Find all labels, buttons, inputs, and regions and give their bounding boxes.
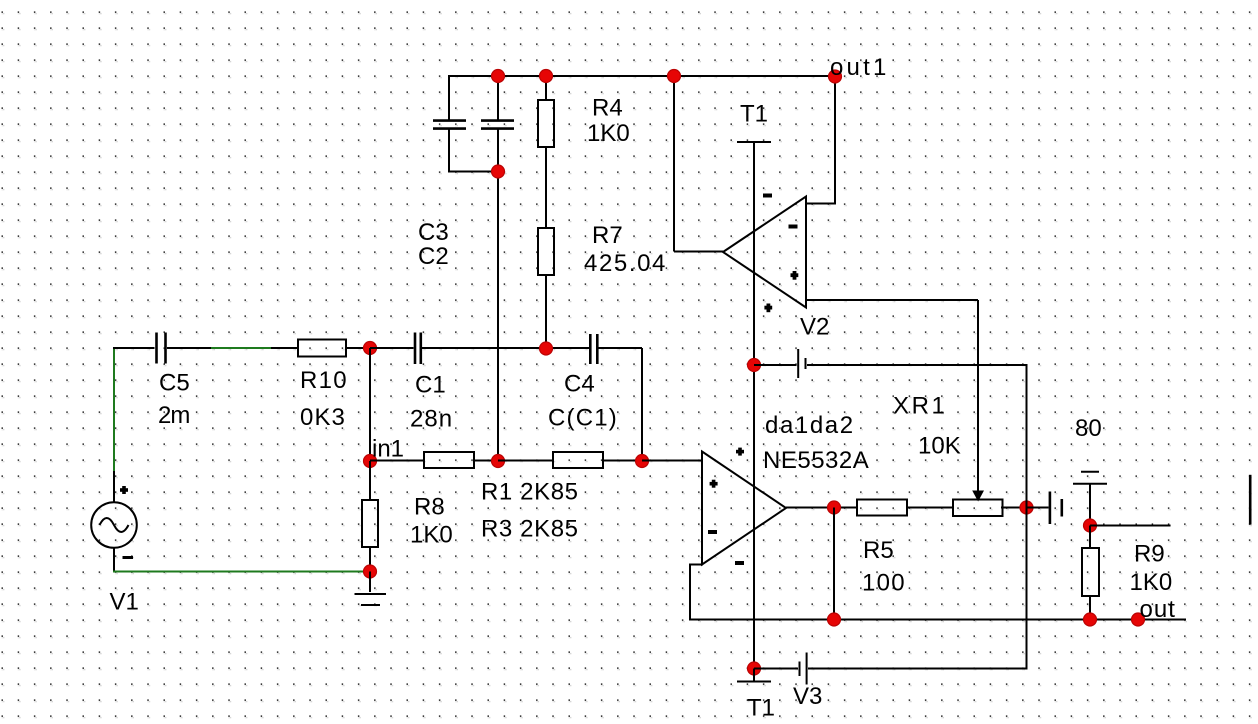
wire green to R10 [271,347,298,349]
wire C5 to green segment [167,347,212,349]
wire A2 feedback drop [689,564,691,621]
svg-text:80: 80 [1075,415,1102,442]
capacitor C5 [157,333,190,430]
wire R5 to XR1 [907,507,952,509]
wire C4 to corner [598,347,642,349]
junction R7-C1C4 [540,342,553,355]
junction 80-R9 [1084,519,1097,532]
junction C2-C3 [492,165,505,178]
wire A2 output to rail [833,508,835,620]
wire C1 to C4 [422,347,589,349]
svg-text:R7: R7 [592,222,623,249]
jumper T1 top [737,101,771,143]
wire A2 feedback jog [690,564,703,566]
wire A1 noninverting to XR1 arrow horizontal [806,299,978,301]
resistor R3 [481,452,603,543]
junction R8-ground [364,565,377,578]
component clipped at right edge [1249,475,1252,525]
resistor R1 [424,452,579,506]
junction C2 top [492,70,505,83]
wire R9 top stub [1089,526,1091,549]
capacitor C3 [418,121,466,246]
capacitor unlabeled [1050,492,1062,525]
ground [355,594,387,605]
battery 80 [1073,415,1107,484]
wire XR1 arrow vertical [977,300,979,492]
wire R4 to R7 [545,147,547,228]
junction R9 rail [1084,613,1097,626]
wire op-amp A1 output horizontal [674,251,723,253]
wire R10 to node [346,347,371,349]
wire T1 bottom stub [753,669,755,682]
wire C3 to C2 junction [448,171,498,173]
svg-text:100: 100 [862,570,906,597]
wire V3 left [754,668,798,670]
svg-text:10K: 10K [918,433,961,460]
svg-text:da1da2: da1da2 [765,412,855,439]
potentiometer XR1 [893,393,1003,517]
wire XR1 to junction [1001,507,1027,509]
wire R9 bottom stub [1089,596,1091,620]
resistor R10 [298,340,348,432]
svg-text:425.04: 425.04 [584,250,667,277]
wire R3 to junction [603,460,642,462]
wire R7 bottom stub [545,275,547,348]
wire bottom rail [689,619,1186,621]
junction V2 left [748,359,761,372]
jumper T1 bottom [737,682,775,722]
node out [1132,596,1176,626]
wire V2 left [754,364,797,366]
svg-text:C2: C2 [418,243,449,270]
svg-text:2m: 2m [158,402,189,429]
wire C3 top drop [448,75,450,121]
wire V2 supply vertical [1026,365,1028,669]
junction A1 output top [668,70,681,83]
op-amp A2 NE5532A da1da2 [702,412,869,565]
wire out1 drop [834,76,836,205]
wire junction to R3 [498,460,553,462]
wire ground stub [369,572,371,593]
wire in1 vertical [369,348,371,461]
wire C3 bottom stub [448,129,450,173]
wire V1 top vertical green [113,347,115,471]
wire green segment [211,347,272,349]
wire T1 vertical line [753,142,755,669]
wire 80 stem [1089,484,1091,526]
wire V3 right [808,668,1028,670]
wire V1 to C5 [113,347,155,349]
junction R4 top [540,70,553,83]
svg-text:XR1: XR1 [893,393,948,420]
capacitor C2 [418,121,514,270]
op-amp A1 [723,194,806,313]
svg-text:T1: T1 [740,101,768,128]
wire V1 top stub [113,471,115,503]
junction XR1-V2 [1020,501,1033,514]
junction V3 left [748,662,761,675]
svg-text:1K0: 1K0 [410,522,453,549]
svg-text:V3: V3 [793,683,822,710]
svg-text:C1: C1 [415,372,446,399]
voltage source V1 [91,486,139,616]
wire node to C1 [370,347,414,349]
wire C2 junction to node R1-R3 [497,129,499,462]
wire V2 right [807,364,1028,366]
wire op-amp A1 output drop [673,75,675,252]
junction R1-R3 [492,455,505,468]
wire top rail [448,75,836,77]
resistor R8 [362,494,453,549]
junction A2 output rail [828,613,841,626]
wire C4 corner drop [641,348,643,461]
wire R8 top stub [369,461,371,500]
battery V3 [793,653,822,711]
battery V2 [798,314,829,379]
svg-text:R1 2K85: R1 2K85 [481,479,579,506]
wire C2 top stub [497,75,499,121]
svg-text:R3 2K85: R3 2K85 [481,516,579,543]
svg-text:R9: R9 [1134,541,1165,568]
svg-text:C(C1): C(C1) [548,405,618,432]
resistor R9 [1082,541,1172,597]
resistor R5 [857,500,907,597]
svg-text:C5: C5 [159,370,190,397]
wire green bottom return [113,571,370,573]
svg-text:V2: V2 [800,314,829,341]
junction A2 output [828,501,841,514]
capacitor C4 [548,334,618,432]
wire R4 top stub [545,75,547,100]
wire junction right [1090,525,1171,527]
wire R1 to junction [474,460,498,462]
wire V1 bottom stub [113,548,115,571]
svg-text:out1: out1 [830,54,890,81]
resistor R4 [538,95,630,148]
node out1 [829,54,890,83]
svg-text:in1: in1 [372,436,404,463]
node in1 [364,436,405,468]
svg-text:T1: T1 [747,695,775,722]
svg-text:R5: R5 [863,537,894,564]
svg-text:0K3: 0K3 [300,404,346,431]
resistor R7 [538,222,667,277]
svg-text:28n: 28n [410,406,453,433]
svg-text:R4: R4 [592,95,623,122]
svg-text:C3: C3 [418,219,449,246]
wire A1 inverting input link [806,203,836,205]
wire A2 output [786,507,857,509]
svg-text:1K0: 1K0 [1130,569,1173,596]
svg-text:C4: C4 [564,371,595,398]
capacitor C1 [410,333,453,433]
wire in1 to R1 [370,460,424,462]
svg-text:1K0: 1K0 [587,120,630,147]
junction R10-C1 [364,342,377,355]
wire R8 bottom stub [369,547,371,572]
wire junction to capacitor stub [1027,507,1049,509]
wire junction to op-amp A2 [642,460,702,462]
svg-text:R8: R8 [414,494,445,521]
svg-text:V1: V1 [110,589,139,616]
svg-text:out: out [1140,596,1176,623]
svg-text:NE5532A: NE5532A [763,447,869,474]
junction R3 out [636,455,649,468]
svg-text:R10: R10 [300,367,348,394]
